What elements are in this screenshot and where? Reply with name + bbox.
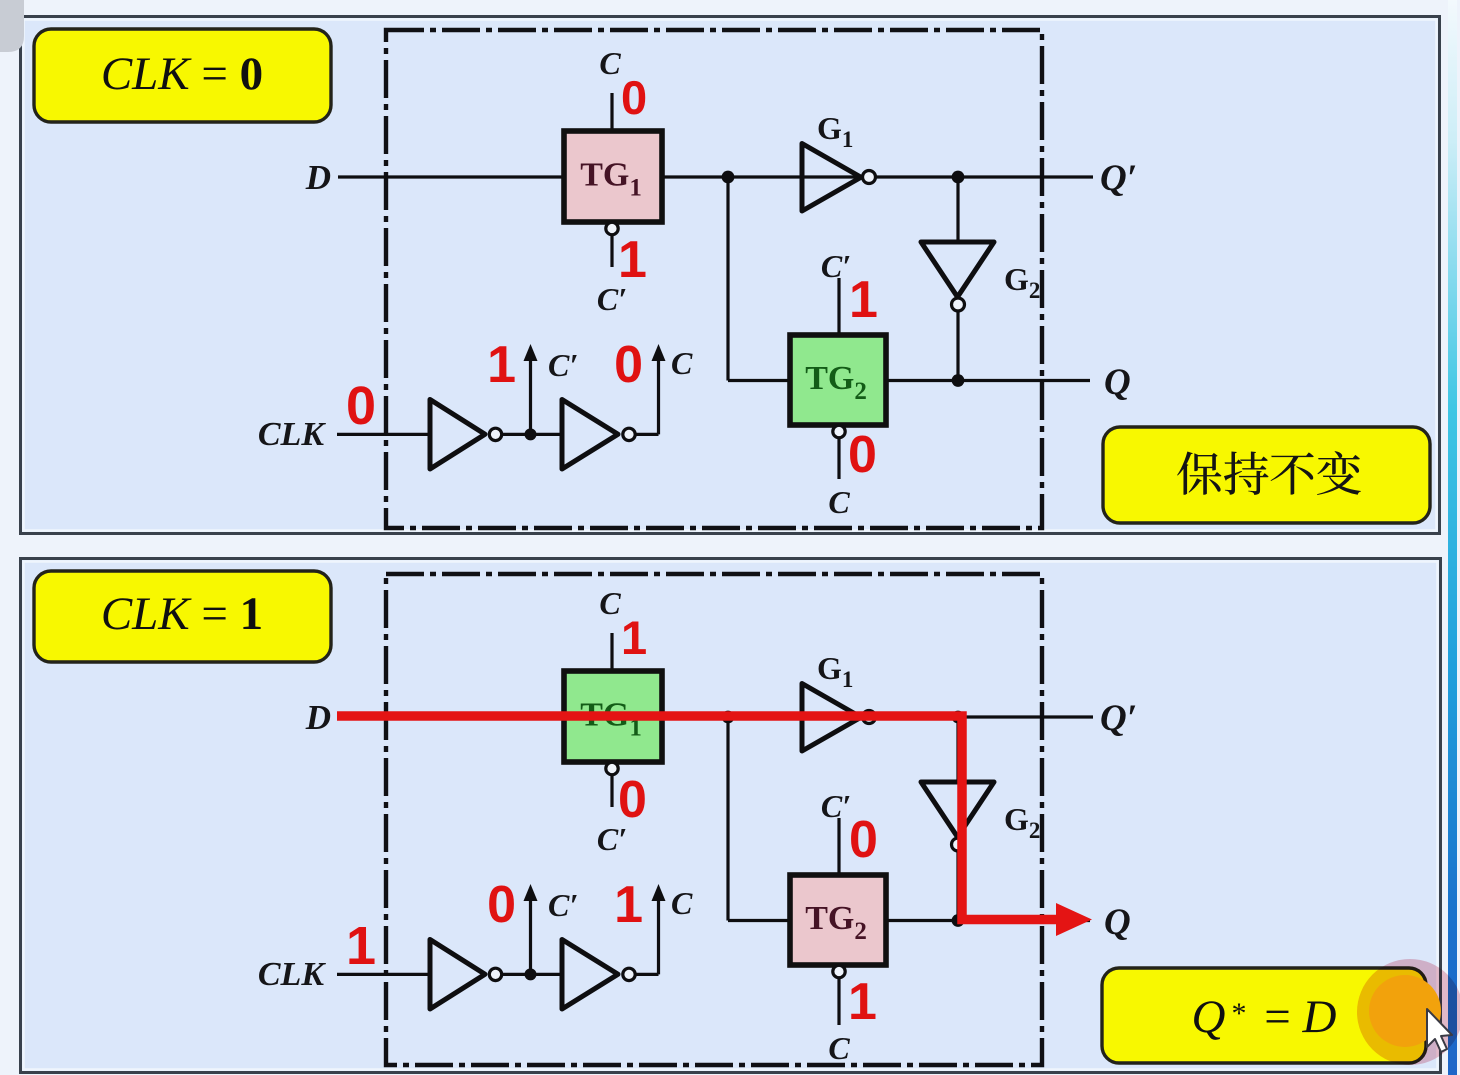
svg-text:C: C — [828, 484, 850, 520]
svg-text:D: D — [305, 698, 331, 737]
svg-text:Q * = D: Q * = D — [1192, 991, 1337, 1043]
svg-text:1: 1 — [618, 231, 647, 289]
svg-text:0: 0 — [614, 336, 643, 394]
svg-text:0: 0 — [487, 876, 516, 934]
svg-text:CLK = 1: CLK = 1 — [101, 588, 263, 640]
svg-text:C: C — [599, 585, 621, 621]
svg-text:1: 1 — [614, 876, 643, 934]
svg-text:CLK: CLK — [258, 956, 326, 993]
svg-text:C′: C′ — [821, 788, 851, 824]
svg-text:1: 1 — [346, 916, 376, 976]
svg-text:0: 0 — [848, 426, 877, 484]
svg-text:CLK: CLK — [258, 416, 326, 453]
svg-text:0: 0 — [849, 811, 878, 869]
svg-text:C′: C′ — [548, 347, 578, 383]
svg-text:C′: C′ — [821, 248, 851, 284]
svg-text:1: 1 — [621, 611, 647, 664]
svg-text:0: 0 — [621, 71, 647, 124]
svg-text:C: C — [671, 885, 693, 921]
svg-text:Q: Q — [1104, 362, 1131, 403]
svg-text:Q′: Q′ — [1100, 698, 1137, 739]
svg-text:0: 0 — [618, 771, 647, 829]
svg-text:1: 1 — [487, 336, 516, 394]
svg-text:CLK = 0: CLK = 0 — [101, 48, 263, 100]
svg-text:Q: Q — [1104, 902, 1131, 943]
svg-text:1: 1 — [849, 271, 878, 329]
svg-text:C′: C′ — [548, 887, 578, 923]
svg-text:Q′: Q′ — [1100, 158, 1137, 199]
svg-text:C: C — [599, 45, 621, 81]
svg-text:C: C — [828, 1030, 850, 1066]
svg-text:D: D — [305, 158, 331, 197]
svg-text:C: C — [671, 345, 693, 381]
svg-text:0: 0 — [346, 376, 376, 436]
svg-text:1: 1 — [848, 973, 877, 1031]
